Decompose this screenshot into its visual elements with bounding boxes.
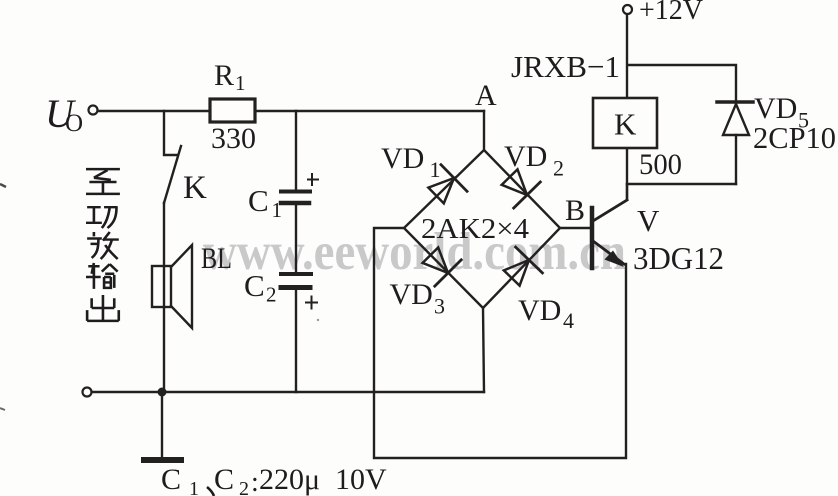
svg-text:1: 1 [430,157,441,182]
svg-text:1: 1 [272,198,283,222]
svg-text:VD: VD [504,140,547,173]
svg-text:VD: VD [381,142,424,175]
svg-text:2AK2×4: 2AK2×4 [421,213,530,245]
svg-text:VD: VD [390,278,433,311]
svg-text:K: K [614,107,637,142]
svg-text:V: V [637,203,660,238]
svg-text:R: R [214,59,234,92]
svg-text:C: C [214,463,234,496]
svg-text:C: C [248,183,269,218]
svg-text:O: O [65,110,83,137]
svg-text:330: 330 [211,122,256,155]
svg-text::: : [251,467,259,496]
svg-text:1: 1 [235,71,246,95]
svg-text:JRXB−1: JRXB−1 [511,49,620,84]
svg-text:3: 3 [434,294,445,319]
svg-text:2CP10: 2CP10 [753,120,836,155]
svg-text:www.eeworld.com.cn: www.eeworld.com.cn [203,223,626,281]
svg-text:C: C [161,463,181,496]
svg-text:1: 1 [189,478,199,496]
svg-text:2: 2 [553,156,564,181]
svg-text:VD: VD [518,294,561,327]
svg-text:2: 2 [239,478,249,496]
svg-text:4: 4 [563,308,574,333]
svg-text:10V: 10V [335,463,387,496]
svg-text:B: B [565,194,585,227]
svg-text:500: 500 [639,148,682,181]
svg-text:3DG12: 3DG12 [633,240,724,276]
svg-text:BL: BL [201,242,232,275]
svg-text:2: 2 [266,283,277,307]
svg-text:+12V: +12V [639,0,703,26]
svg-text:A: A [475,79,497,112]
svg-text:C: C [244,268,265,303]
svg-text:K: K [183,170,207,206]
svg-text:220μ: 220μ [259,463,320,496]
